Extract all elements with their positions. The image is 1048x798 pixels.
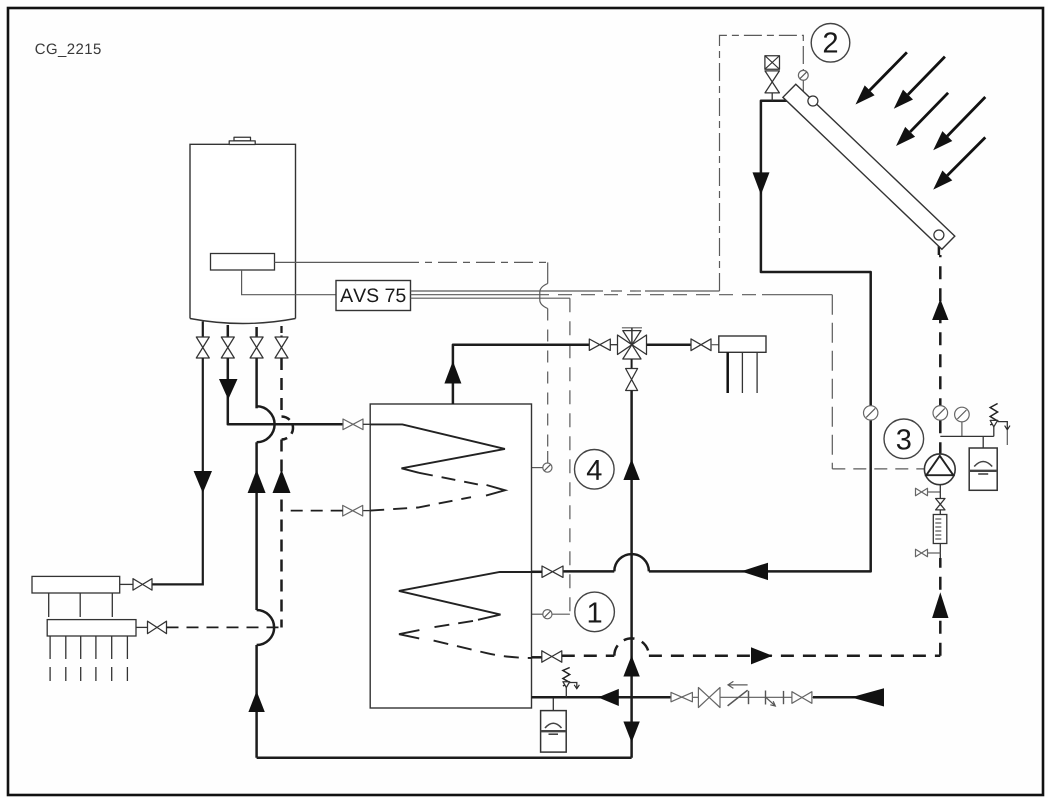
central cold feed riser [623,391,639,758]
boiler flue vent [229,137,255,144]
solar return riser to collector [932,240,948,656]
solar flow meter [933,510,947,558]
wire control box to tank sensor 4 (dash-dot, hops over bus) [275,262,548,463]
label circle 4 [575,450,615,490]
pressure gauge on riser [933,406,948,421]
boiler isolation valve 3 [250,327,263,358]
pump drain cock lower [916,549,941,556]
thermometer on solar supply [864,406,878,420]
storage tank [370,404,531,708]
sun arrow 2 [894,57,945,109]
AVS wire bus [411,291,833,298]
solar expansion vessel [969,436,997,490]
solar collector panel [783,84,955,249]
pump drain cock upper [916,488,941,495]
taps manifold [719,336,766,393]
check valve under pump [936,485,945,510]
cold line shutoff valve C [792,692,812,704]
sun arrow 5 [933,137,985,189]
check valve with flow arrow [728,681,749,706]
solar supply valve at tank [532,566,564,577]
pipe boiler to tank coil (pipe 2) [219,358,343,424]
radiator 2 [47,620,136,681]
solar supply pipe collector to tank [563,101,871,580]
three-way mixing valve [610,328,646,359]
drawing number label CG_2215 [35,44,100,57]
tank lower coil [399,572,532,658]
solar pump [924,454,955,485]
pipe heating return dashed (pipe 4) [273,358,294,628]
union tick [783,691,785,704]
cold line shutoff valve B [698,688,720,708]
DHW pipe to taps manifold [647,343,692,346]
tank sensor 4 [532,463,553,472]
wire to collector sensor (dash-dot) [720,35,804,291]
radiator 1 valve [120,579,152,590]
radiator 2 valve [136,621,167,633]
valve on tank coil supply [343,419,370,430]
wire to tank sensor 1 (dashed) [552,298,570,614]
boiler isolation valve 4 [275,326,288,358]
collector sensor [798,70,808,94]
manifold isolation valve [691,339,719,351]
sun arrow 1 [856,52,907,104]
label circle 2 [811,24,850,63]
label circle 1 [575,592,615,632]
DHW shutoff valve [589,339,610,350]
boiler isolation valve 2 [221,325,234,358]
sanitary safety group on cold line [563,668,580,698]
sun arrow 3 [896,93,948,146]
tank sensor 1 [532,610,553,619]
wire control box to AVS 75 [242,270,336,295]
solar safety valve [990,404,1010,446]
tank upper coil [370,424,505,510]
boiler control box [211,254,275,271]
DHW expansion vessel under tank [541,698,567,752]
DHW pipe from tank top [444,345,589,404]
mixer bottom balancing valve [626,359,638,391]
second gauge [955,407,970,436]
solar return valve at tank [532,651,562,662]
pipe heating return (pipe 3) with crossing hops [248,358,275,758]
radiator 1 [32,576,120,617]
drain cock [766,691,776,707]
radiator 2 return dashed to pipe 4 [167,626,282,628]
pipe heating supply to radiator (pipe 1) [152,358,212,584]
gauge connector line [940,435,994,437]
collector safety valve group [765,56,780,101]
cold water line at tank bottom [532,688,885,706]
boiler [190,144,296,323]
bottom return run [257,757,632,760]
tank coil return dashed to pipe 4 [282,505,371,516]
wire to solar pump (dash-dot) [832,295,924,469]
label circle 3 [884,419,924,459]
AVS 75 module [336,281,411,311]
sun arrow 4 [933,97,985,150]
boiler isolation valve 1 [196,322,209,359]
solar return dashed run to pump [562,638,941,664]
cold line shutoff valve A [671,692,692,701]
